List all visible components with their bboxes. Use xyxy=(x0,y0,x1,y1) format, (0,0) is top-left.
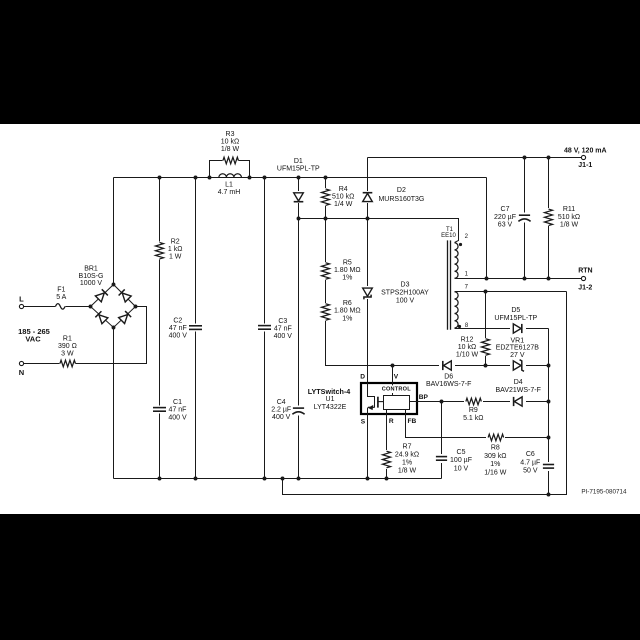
white schematic panel xyxy=(0,124,640,514)
svg-text:1/4 W: 1/4 W xyxy=(334,201,353,208)
diode D2 xyxy=(361,191,375,203)
svg-text:R1: R1 xyxy=(63,336,72,343)
svg-text:1%: 1% xyxy=(490,461,500,468)
source rail dots xyxy=(158,477,162,481)
main DC rail xyxy=(114,177,487,179)
wire rail right end down to pin 1 row xyxy=(486,178,488,279)
svg-text:RTN: RTN xyxy=(578,268,592,275)
clamp node wire xyxy=(299,219,459,243)
svg-text:309 kΩ: 309 kΩ xyxy=(484,453,506,460)
U1 box xyxy=(361,383,417,414)
right bus wire xyxy=(548,329,550,495)
resistor R6 xyxy=(320,303,331,321)
svg-text:1%: 1% xyxy=(342,275,352,282)
svg-text:C7: C7 xyxy=(501,206,510,213)
U1 S pin lead xyxy=(367,408,369,479)
svg-text:5 A: 5 A xyxy=(56,294,66,301)
svg-text:1/8 W: 1/8 W xyxy=(398,467,417,474)
svg-text:400 V: 400 V xyxy=(272,414,291,421)
capacitor C3 xyxy=(257,324,272,332)
C3 branch wire xyxy=(264,178,266,479)
svg-text:F1: F1 xyxy=(57,287,65,294)
svg-text:10 kΩ: 10 kΩ xyxy=(221,138,239,145)
wire R1 to bridge right node xyxy=(76,307,147,364)
diode D4 xyxy=(510,396,526,408)
FB row wire xyxy=(406,410,549,438)
rail junction dots xyxy=(158,176,162,180)
D1 C4 branch wire xyxy=(298,178,300,479)
T1 primary winding xyxy=(455,243,459,279)
svg-text:1 kΩ: 1 kΩ xyxy=(168,246,183,253)
svg-text:50 V: 50 V xyxy=(523,468,538,475)
svg-text:MURS160T3G: MURS160T3G xyxy=(378,196,424,203)
svg-text:400 V: 400 V xyxy=(274,333,293,340)
svg-text:J1-1: J1-1 xyxy=(578,162,592,169)
svg-text:3 W: 3 W xyxy=(61,350,74,357)
svg-text:100 µF: 100 µF xyxy=(450,457,472,464)
svg-text:B10S-G: B10S-G xyxy=(79,273,104,280)
bridge diode bottom-right xyxy=(119,311,132,324)
terminal N xyxy=(19,361,23,365)
zener VR1 xyxy=(510,360,526,372)
svg-text:R9: R9 xyxy=(469,407,478,414)
resistor R9 xyxy=(464,397,483,408)
svg-text:BAV16WS-7-F: BAV16WS-7-F xyxy=(426,381,471,388)
svg-text:R5: R5 xyxy=(343,259,352,266)
capacitor C7 branch xyxy=(524,158,526,279)
svg-text:63 V: 63 V xyxy=(498,222,513,229)
48V output rail xyxy=(368,157,582,159)
svg-text:C5: C5 xyxy=(457,449,466,456)
diode D1 xyxy=(292,191,306,203)
resistor R5 xyxy=(320,262,331,280)
U1 V pin lead xyxy=(392,366,394,396)
svg-text:100 V: 100 V xyxy=(396,297,415,304)
svg-text:D6: D6 xyxy=(444,374,453,381)
pin7 row wire xyxy=(455,291,567,293)
svg-text:48 V, 120 mA: 48 V, 120 mA xyxy=(564,148,607,155)
svg-text:D4: D4 xyxy=(514,379,523,386)
svg-text:EDZTE6127B: EDZTE6127B xyxy=(496,345,540,352)
svg-text:1/10 W: 1/10 W xyxy=(456,351,479,358)
T1 secondary winding xyxy=(455,292,459,328)
resistor R11 branch xyxy=(548,158,550,279)
svg-text:L: L xyxy=(19,294,24,303)
svg-text:1/8 W: 1/8 W xyxy=(221,146,240,153)
svg-text:EE10: EE10 xyxy=(441,233,456,239)
svg-text:CONTROL: CONTROL xyxy=(382,386,411,392)
diode D6 xyxy=(439,360,455,372)
svg-text:10 V: 10 V xyxy=(454,465,469,472)
bridge node dots xyxy=(89,305,93,309)
svg-text:47 nF: 47 nF xyxy=(274,326,292,333)
svg-text:R2: R2 xyxy=(171,239,180,246)
svg-text:R3: R3 xyxy=(226,131,235,138)
svg-text:N: N xyxy=(19,368,24,377)
svg-text:1%: 1% xyxy=(342,315,352,322)
primary bottom to RTN row xyxy=(455,278,458,280)
wire bridge bottom to ground rail xyxy=(113,328,115,479)
terminal J1-1 xyxy=(581,155,585,159)
svg-text:C4: C4 xyxy=(277,399,286,406)
svg-text:10 kΩ: 10 kΩ xyxy=(458,344,476,351)
capacitor C6 xyxy=(542,462,557,471)
U1 MOSFET xyxy=(368,383,375,408)
R5 R6 branch wire xyxy=(326,219,393,366)
svg-text:D2: D2 xyxy=(397,187,406,194)
svg-text:1%: 1% xyxy=(402,460,412,467)
svg-text:400 V: 400 V xyxy=(169,333,188,340)
svg-text:4.7 mH: 4.7 mH xyxy=(218,189,241,196)
svg-text:C6: C6 xyxy=(526,451,535,458)
pin8 D5 row wire xyxy=(455,328,549,330)
svg-text:C1: C1 xyxy=(173,399,182,406)
R12 branch xyxy=(485,292,487,366)
R3 parallel branch xyxy=(210,161,223,178)
svg-text:27 V: 27 V xyxy=(510,352,525,359)
resistor R2 xyxy=(155,242,164,260)
R2 C1 branch wire xyxy=(159,178,161,479)
svg-text:VR1: VR1 xyxy=(510,337,524,344)
svg-text:FB: FB xyxy=(408,418,417,425)
bridge diode top-right xyxy=(119,289,132,302)
svg-text:R4: R4 xyxy=(339,186,348,193)
resistor R4 branch xyxy=(325,178,327,219)
resistor R3 xyxy=(223,157,239,164)
V row wire xyxy=(393,365,549,367)
svg-text:J1-2: J1-2 xyxy=(578,284,592,291)
R pin R7 branch xyxy=(386,410,388,479)
svg-text:47 nF: 47 nF xyxy=(169,407,187,414)
svg-text:1.80 MΩ: 1.80 MΩ xyxy=(334,308,361,315)
svg-text:UFM15PL-TP: UFM15PL-TP xyxy=(277,166,320,173)
capacitor C4 xyxy=(291,406,307,416)
resistor R1 xyxy=(60,360,76,367)
U1 controller inner box xyxy=(384,396,410,410)
svg-text:VAC: VAC xyxy=(25,335,41,344)
svg-text:1000 V: 1000 V xyxy=(80,280,103,287)
svg-text:D3: D3 xyxy=(401,282,410,289)
svg-text:UFM15PL-TP: UFM15PL-TP xyxy=(494,315,537,322)
fuse F1 xyxy=(56,304,66,310)
svg-text:4.7 µF: 4.7 µF xyxy=(520,459,540,466)
inductor L1 xyxy=(218,170,242,177)
svg-text:D5: D5 xyxy=(511,307,520,314)
svg-text:STPS2H100AY: STPS2H100AY xyxy=(381,290,429,297)
transformer T1 core xyxy=(448,240,451,329)
svg-text:BR1: BR1 xyxy=(84,266,98,273)
svg-text:1.80 MΩ: 1.80 MΩ xyxy=(334,267,361,274)
svg-text:1/8 W: 1/8 W xyxy=(560,222,579,229)
terminal L xyxy=(19,304,23,308)
svg-text:390 Ω: 390 Ω xyxy=(58,343,77,350)
svg-text:2.2 µF: 2.2 µF xyxy=(271,407,291,414)
diode D3 schottky xyxy=(361,286,375,299)
svg-text:C3: C3 xyxy=(278,318,287,325)
svg-text:BP: BP xyxy=(419,394,429,401)
svg-text:L1: L1 xyxy=(225,182,233,189)
U1 CONTROL text xyxy=(380,385,414,393)
T1 polarity dots xyxy=(459,243,462,246)
svg-text:V: V xyxy=(394,374,399,381)
capacitor C1 xyxy=(152,406,167,414)
svg-text:PI-7195-080714: PI-7195-080714 xyxy=(581,489,627,496)
svg-text:LYTSwitch-4: LYTSwitch-4 xyxy=(308,387,350,396)
wire fuse to bridge left node xyxy=(66,306,91,308)
jog down to bottom rail xyxy=(283,292,567,495)
svg-text:R8: R8 xyxy=(491,445,500,452)
svg-text:24.9 kΩ: 24.9 kΩ xyxy=(395,452,419,459)
svg-text:510 kΩ: 510 kΩ xyxy=(558,214,580,221)
wire L to fuse xyxy=(24,306,56,308)
svg-text:R6: R6 xyxy=(343,300,352,307)
svg-text:R11: R11 xyxy=(563,206,575,213)
svg-text:47 nF: 47 nF xyxy=(169,325,187,332)
svg-text:R7: R7 xyxy=(403,444,412,451)
svg-text:D1: D1 xyxy=(294,158,303,165)
svg-text:R: R xyxy=(389,418,394,425)
resistor R8 xyxy=(486,432,505,443)
bridge BR1 diamond wires xyxy=(91,285,136,328)
svg-text:D: D xyxy=(360,374,365,381)
svg-text:5.1 kΩ: 5.1 kΩ xyxy=(463,415,483,422)
wire N to R1 xyxy=(24,363,60,365)
wire bridge top to main rail xyxy=(113,178,115,285)
svg-text:510 kΩ: 510 kΩ xyxy=(332,193,354,200)
svg-text:LYT4322E: LYT4322E xyxy=(314,404,347,411)
svg-text:C2: C2 xyxy=(173,317,182,324)
BP row wire xyxy=(410,401,549,403)
svg-text:220 µF: 220 µF xyxy=(494,214,516,221)
svg-text:T1: T1 xyxy=(446,227,454,233)
C2 branch wire xyxy=(195,178,197,479)
svg-text:S: S xyxy=(361,418,366,425)
D2 D3 drain line xyxy=(367,158,369,383)
svg-text:1 W: 1 W xyxy=(169,253,182,260)
svg-text:R12: R12 xyxy=(461,336,474,343)
svg-text:400 V: 400 V xyxy=(168,414,187,421)
bridge diode bottom-left xyxy=(95,311,108,324)
diode D5 xyxy=(510,322,526,334)
svg-text:U1: U1 xyxy=(326,396,335,403)
bottom rail dot xyxy=(547,493,551,497)
svg-text:1/16 W: 1/16 W xyxy=(484,469,507,476)
bridge diode top-left xyxy=(95,289,108,302)
terminal J1-2 xyxy=(581,276,585,280)
capacitor C5 branch xyxy=(441,402,443,479)
source return rail xyxy=(114,478,442,480)
capacitor C2 xyxy=(188,324,203,332)
RTN row wire xyxy=(455,278,582,280)
svg-text:BAV21WS-7-F: BAV21WS-7-F xyxy=(496,387,541,394)
